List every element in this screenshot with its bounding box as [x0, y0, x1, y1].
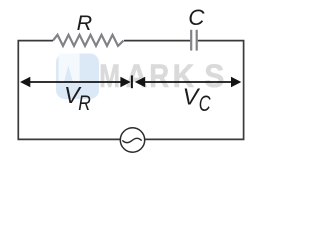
resistor R — [53, 35, 124, 46]
svg-text:A: A — [126, 58, 148, 94]
AC source — [120, 128, 144, 152]
svg-text:V: V — [183, 84, 201, 110]
svg-text:M: M — [99, 59, 120, 95]
svg-text:R: R — [77, 11, 93, 35]
watermark logo square — [56, 54, 99, 100]
svg-text:C: C — [199, 92, 212, 117]
sine wave — [123, 138, 141, 142]
wire right+bottom-right — [145, 41, 244, 140]
svg-text:S: S — [204, 58, 224, 94]
watermark bookmark ribbon — [59, 54, 80, 83]
arrow VR — [27, 81, 123, 83]
arrow VC — [142, 81, 234, 83]
wire left+bottom-left — [18, 41, 120, 140]
svg-text:R: R — [149, 59, 169, 95]
node tick — [131, 75, 133, 88]
capacitor C — [190, 30, 192, 51]
watermark MARKS text — [99, 58, 224, 95]
svg-text:R: R — [78, 92, 91, 115]
svg-text:C: C — [188, 5, 205, 30]
wire top middle — [124, 40, 190, 42]
